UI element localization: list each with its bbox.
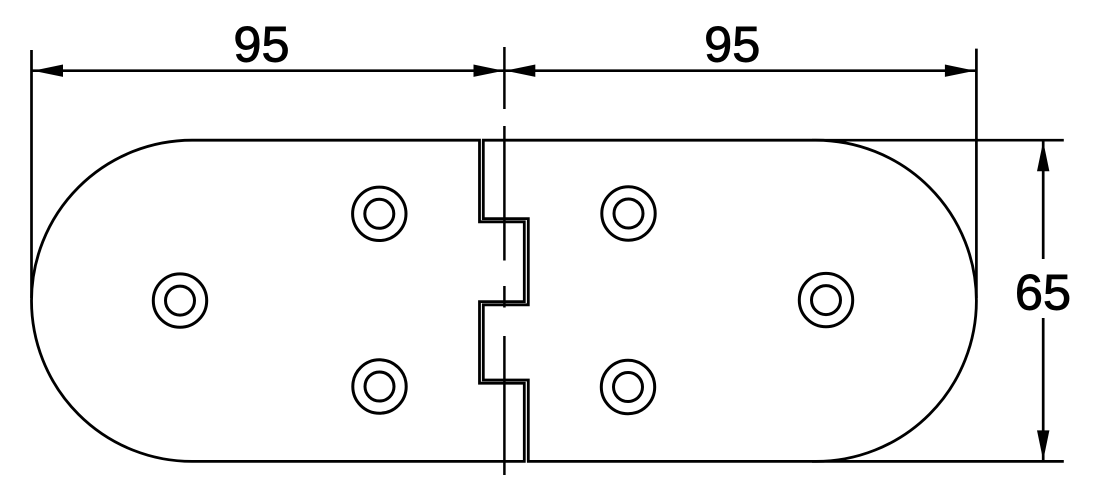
- arrowhead 65 pointing down: [1037, 430, 1049, 460]
- hole right-leaf inner circle upper: [614, 199, 643, 228]
- arrowhead right pointing right: [945, 65, 975, 77]
- hole left-leaf inner circle lower: [365, 372, 394, 401]
- hole right-leaf outer circle lower: [601, 360, 654, 413]
- centerline dash 1: [503, 47, 506, 109]
- hole left-leaf inner circle upper: [365, 199, 394, 228]
- arrowhead center pointing left: [505, 65, 535, 77]
- centerline dash 4: [503, 336, 506, 475]
- arrowhead center pointing right: [474, 65, 504, 77]
- dimension line 65 upper segment: [1042, 140, 1045, 259]
- centerline dash 2: [503, 126, 506, 261]
- extension line 65 bottom: [812, 460, 1064, 463]
- svg-text:65: 65: [1015, 264, 1071, 321]
- extension line left: [30, 50, 33, 298]
- hinge left leaf outline: [31, 140, 524, 461]
- hole left-leaf outer circle far: [153, 274, 206, 327]
- arrowhead left pointing left: [33, 65, 63, 77]
- hole right-leaf inner circle far: [812, 286, 841, 315]
- svg-text:95: 95: [704, 15, 760, 72]
- hole left-leaf inner circle far: [166, 286, 195, 315]
- hinge right leaf outline: [483, 140, 976, 461]
- dimension line 65 lower segment: [1042, 318, 1045, 461]
- hole left-leaf outer circle lower: [353, 360, 406, 413]
- dimension line 95 horizontal: [32, 69, 977, 72]
- hole right-leaf outer circle upper: [602, 187, 655, 240]
- extension line 65 top: [812, 139, 1064, 142]
- extension line right: [975, 49, 978, 298]
- hole right-leaf inner circle lower: [614, 373, 643, 402]
- hole left-leaf outer circle upper: [353, 187, 406, 240]
- centerline dash 3: [503, 286, 506, 308]
- hole right-leaf outer circle far: [799, 273, 852, 326]
- svg-text:95: 95: [233, 15, 289, 72]
- arrowhead 65 pointing up: [1037, 141, 1049, 171]
